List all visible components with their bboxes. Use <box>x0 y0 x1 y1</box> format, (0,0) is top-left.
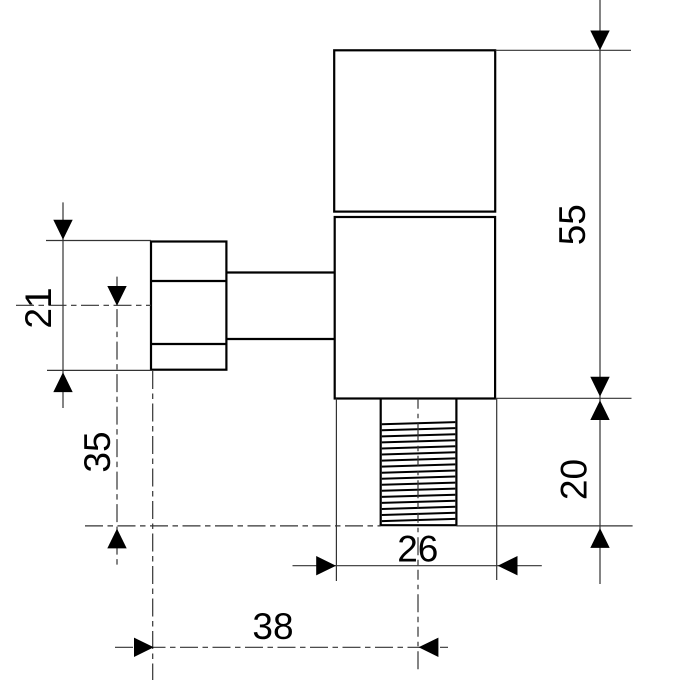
arrow 35 bottom <box>107 529 126 549</box>
connecting pipe top edge <box>226 271 334 273</box>
svg-text:55: 55 <box>552 204 593 245</box>
arrow 20 top <box>590 400 609 420</box>
nut facet line lower <box>151 343 226 345</box>
wall nut outline <box>151 242 226 370</box>
dim line 38 horizontal dash-dot <box>115 646 448 648</box>
extension line at thread bottom right <box>456 525 632 527</box>
arrow 20 bottom <box>590 528 609 548</box>
dim line 26 <box>293 565 542 567</box>
thread centreline vertical <box>417 399 419 671</box>
extension line nut top <box>46 240 151 242</box>
thread hatch lines <box>382 422 456 521</box>
threaded spigot bottom edge <box>380 524 458 526</box>
svg-text:26: 26 <box>397 529 438 570</box>
svg-text:20: 20 <box>554 459 595 500</box>
arrow 55 bottom <box>590 377 609 397</box>
extension line 26 left <box>335 399 337 582</box>
threaded spigot right edge <box>455 399 457 526</box>
extension line bottom of body <box>496 397 632 399</box>
thin dash-dot centre lines <box>16 277 448 680</box>
arrow 21 top <box>53 220 72 240</box>
extension line nut bottom <box>47 369 151 371</box>
connecting pipe bottom edge <box>226 338 334 340</box>
threaded spigot left edge <box>380 399 382 526</box>
arrow 26 right <box>498 556 518 575</box>
svg-text:21: 21 <box>18 287 59 328</box>
nut facet line upper <box>151 280 226 282</box>
dim line 55/20 vertical at right <box>599 0 601 584</box>
valve handle (top rectangle) <box>334 50 495 211</box>
horizontal centreline at thread bottom <box>85 525 381 527</box>
svg-text:38: 38 <box>252 606 293 647</box>
arrow 55 top <box>590 31 609 51</box>
pipe centreline horizontal <box>16 304 151 306</box>
arrow 21 bottom <box>53 372 72 392</box>
svg-text:35: 35 <box>77 431 118 472</box>
arrow 35 top <box>107 286 126 306</box>
arrow 38 right <box>419 638 439 657</box>
thin solid dimension/extension lines <box>46 0 633 584</box>
extension line top of handle <box>496 49 632 51</box>
arrow 26 left <box>316 556 336 575</box>
arrow 38 left <box>134 638 154 657</box>
valve body (second rectangle) <box>335 217 495 399</box>
extension line 26 right <box>496 399 498 581</box>
dim line 35 vertical dash-dot <box>116 277 118 565</box>
dim line 21 vertical at left <box>62 202 64 408</box>
wall line vertical dash-dot below nut <box>152 371 154 680</box>
